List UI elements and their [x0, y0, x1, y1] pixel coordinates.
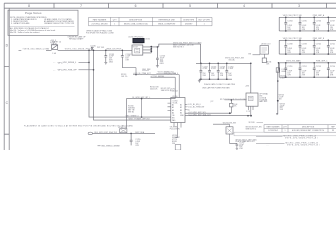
svg-text:PWR_GRP_C: PWR_GRP_C — [316, 61, 328, 63]
svg-text:C1754: C1754 — [330, 66, 335, 68]
leader label 2 — [256, 142, 285, 144]
capacitor C1743 — [104, 50, 107, 62]
leader label 1 — [256, 135, 283, 137]
svg-text:7: 7 — [80, 4, 82, 8]
BOM table bottom — [234, 125, 336, 136]
capacitor C1752 — [299, 63, 302, 77]
svg-text:5: 5 — [189, 4, 191, 8]
R1746 — [263, 54, 265, 58]
Q1743 bottom pins — [249, 106, 254, 116]
svg-text:IN OUT: IN OUT — [133, 46, 138, 48]
svg-text:0.1UF: 0.1UF — [211, 68, 216, 70]
ground C1746 — [156, 66, 159, 68]
W1740 notes block — [128, 106, 136, 114]
page notes box — [8, 10, 78, 35]
svg-text:BLK_GPIO_EXP_SDA_3V3: BLK_GPIO_EXP_SDA_3V3 — [95, 131, 117, 134]
capacitor C1754 — [327, 63, 330, 77]
svg-text:HOLDER, SINGLE SMT 1.20MM PITC: HOLDER, SINGLE SMT 1.20MM PITCH — [292, 130, 325, 132]
cap bank row 3 buses — [279, 63, 336, 77]
capacitor C1734 — [284, 17, 287, 31]
Q1743 side text — [259, 93, 268, 104]
ferrite FB1743 on rail — [277, 63, 280, 115]
capacitor C1738 — [284, 40, 287, 54]
wire from C1744 to right — [122, 67, 136, 69]
svg-text:GND_SENSE_0: GND_SENSE_0 — [126, 116, 139, 118]
svg-text:C1736: C1736 — [316, 21, 321, 23]
left zone ticks — [4, 67, 9, 135]
svg-text:GPIO_PWR_OFF: GPIO_PWR_OFF — [63, 70, 78, 72]
U1750 top pin wire — [126, 98, 179, 129]
svg-text:PART NUMBER: PART NUMBER — [267, 125, 281, 128]
svg-text:1.0UF: 1.0UF — [228, 68, 233, 70]
svg-text:«LCD_BL_PWM_EXT: «LCD_BL_PWM_EXT — [133, 73, 152, 75]
cap bank row 2 buses — [279, 40, 336, 54]
ground mid cluster — [198, 79, 201, 83]
svg-text:0.1UF: 0.1UF — [220, 68, 225, 70]
sheet border frame — [4, 3, 336, 150]
svg-text:VSYS_5V0_VBUS_PROT_A 〉: VSYS_5V0_VBUS_PROT_A 〉 — [285, 136, 319, 139]
rail VSYS down — [250, 63, 252, 93]
svg-text:SEE NOTE 4: SEE NOTE 4 — [246, 129, 257, 131]
svg-text:DIGIKEY: DIGIKEY — [185, 23, 193, 25]
capacitor C1736 — [313, 17, 316, 31]
svg-text:C1741: C1741 — [330, 44, 335, 46]
svg-text:0805: 0805 — [109, 61, 113, 63]
wire rail V1 down — [89, 50, 124, 117]
svg-text:10K 1%: 10K 1% — [121, 76, 128, 78]
capacitor C1740 — [313, 40, 316, 54]
capacitor C1737 — [327, 17, 330, 31]
capacitor C1751 — [284, 63, 287, 77]
U1746 box — [260, 46, 269, 55]
U1750 right bus wires — [185, 113, 251, 116]
wire stub far left — [19, 49, 22, 51]
U1740 dark pinout block — [133, 38, 145, 43]
svg-text:+3V3: +3V3 — [245, 85, 249, 87]
svg-text:VBUS_CONN/PORT: VBUS_CONN/PORT — [158, 23, 176, 25]
svg-text:0.1UF: 0.1UF — [280, 77, 285, 79]
svg-text:4.7UF: 4.7UF — [203, 68, 208, 70]
wire down from switch to bulk cap — [230, 134, 237, 143]
U1750 part text block — [172, 135, 181, 145]
mid bottom bus — [199, 78, 232, 80]
svg-text:PLACEMENT IN CASE GOES TO BULL: PLACEMENT IN CASE GOES TO BULLS AT EITHE… — [24, 124, 134, 127]
rail end arrow — [276, 113, 278, 115]
capacitor C1747 — [200, 63, 203, 79]
U1750 left pin wires — [124, 117, 171, 120]
wire rail V2 down — [94, 50, 128, 120]
zone numbers — [6, 4, 300, 105]
svg-text:1 2 3: 1 2 3 — [246, 111, 250, 113]
svg-text:1-2199230-2: 1-2199230-2 — [268, 130, 278, 132]
capacitor C1753 — [313, 63, 316, 77]
svg-text:1: 1 — [114, 23, 115, 25]
wire CT741 into U1750 — [151, 77, 176, 97]
svg-text:REFERENCE USE: REFERENCE USE — [159, 19, 176, 21]
svg-text:VSYS_3V3_MAIN: VSYS_3V3_MAIN — [286, 60, 301, 63]
capacitor C1746 — [156, 47, 159, 66]
Q1743 left stub — [225, 99, 247, 101]
resistor R1752 — [230, 100, 232, 113]
svg-text:U1746 LDO: U1746 LDO — [261, 43, 271, 45]
svg-text:«LCD_BL_PWM_INT: «LCD_BL_PWM_INT — [187, 107, 205, 109]
svg-text:REV A02 DRAFT: REV A02 DRAFT — [69, 37, 84, 40]
wire VBUS input — [46, 49, 132, 51]
wire LCD_BL_PWM into U1750 — [133, 75, 179, 98]
svg-text:C4_GPIO_EXP_INT_L: C4_GPIO_EXP_INT_L — [132, 97, 150, 99]
U1740 right pins — [143, 47, 159, 53]
U1740 symbol box — [132, 45, 143, 55]
svg-text:PKT 5V0: PKT 5V0 — [97, 47, 104, 49]
svg-text:DESCRIPTION: DESCRIPTION — [302, 126, 315, 128]
svg-text:〈VSYS_5V0_VBUS_CONN: 〈VSYS_5V0_VBUS_CONN — [22, 48, 50, 51]
svg-text:Page Notes: Page Notes — [25, 11, 42, 15]
svg-text:6: 6 — [135, 4, 137, 8]
svg-text:HALL EFF: HALL EFF — [259, 100, 267, 103]
U1750 right pins with labels — [185, 104, 187, 109]
wire SDA — [93, 132, 156, 134]
svg-text:A4: A4 — [172, 111, 174, 114]
capacitor C1749 — [217, 63, 220, 79]
capacitor C1750 — [225, 63, 228, 79]
svg-text:VSYS_5V0_VBUS_PROT_B 〉: VSYS_5V0_VBUS_PROT_B 〉 — [287, 144, 321, 147]
Q1743 box — [246, 93, 258, 106]
svg-text:C1740: C1740 — [316, 44, 321, 46]
svg-text:BUY QTY/PR: BUY QTY/PR — [198, 19, 210, 21]
svg-text:U1740: U1740 — [145, 38, 150, 40]
svg-text:MICRO_USB_CONN 5V 2A: MICRO_USB_CONN 5V 2A — [124, 22, 148, 25]
W1743 switch box — [226, 127, 233, 134]
svg-text:1: 1 — [285, 130, 286, 132]
ground C1743 — [104, 62, 107, 64]
U1750 bottom pins — [174, 123, 181, 138]
svg-text:W1743_EN_SW: W1743_EN_SW — [223, 123, 236, 125]
svg-text:PART NUMBER: PART NUMBER — [93, 18, 107, 21]
svg-text:POLYFUSE TVS PLACED CLOSE: POLYFUSE TVS PLACED CLOSE — [86, 32, 114, 35]
svg-text:TXB0104: TXB0104 — [170, 91, 178, 93]
svg-text:2171790-1 MOLEX: 2171790-1 MOLEX — [91, 23, 108, 25]
top zone ticks — [54, 3, 327, 8]
svg-text:NEXT_POWER_OFF_INT: NEXT_POWER_OFF_INT — [129, 119, 151, 121]
svg-text:A1: A1 — [172, 104, 174, 107]
svg-text:A3: A3 — [172, 109, 174, 112]
wire to W1743 — [213, 124, 230, 127]
wire from U1746 left — [253, 54, 261, 56]
svg-text:4: 4 — [243, 4, 245, 8]
Y1740 small box bottom — [175, 145, 181, 150]
svg-text:«CT741_SENSE: «CT741_SENSE — [151, 76, 165, 78]
capacitor C1741 — [327, 40, 330, 54]
fuse F1740 — [52, 45, 58, 50]
svg-text:GND_SHIELD_SENSE: GND_SHIELD_SENSE — [101, 146, 120, 148]
rail junction + cap text W1743a — [277, 80, 279, 82]
svg-text:C1738: C1738 — [287, 44, 292, 46]
svg-text:0805: 0805 — [160, 63, 164, 65]
svg-text:R1752 PULLUP TO LCD RAIL: R1752 PULLUP TO LCD RAIL — [220, 98, 247, 101]
svg-text:SEE NOTE 3: SEE NOTE 3 — [173, 47, 184, 49]
svg-text:VBUS_5V0_PROT: VBUS_5V0_PROT — [106, 49, 122, 51]
svg-text:C1737: C1737 — [330, 21, 335, 23]
svg-text:PULLDOWN: PULLDOWN — [170, 129, 180, 131]
cap C1755 below junction — [130, 133, 133, 145]
capacitor C1744 — [121, 50, 124, 67]
svg-text:C1751: C1751 — [287, 66, 292, 68]
svg-text:XF1740: XF1740 — [249, 122, 255, 124]
capacitor W1743 bulk — [236, 143, 239, 148]
svg-text:C1752: C1752 — [302, 66, 307, 68]
svg-text:Min R8 : Suffix of value for a: Min R8 : Suffix of value for ambient — [10, 31, 40, 34]
svg-text:A2: A2 — [172, 106, 174, 109]
svg-text:〈EXP_SDA: 〈EXP_SDA — [134, 131, 145, 134]
capacitor C1739 — [299, 40, 302, 54]
U1750 left stub pins — [168, 103, 171, 110]
svg-text:8: 8 — [28, 4, 30, 8]
svg-text:5V0 2A: 5V0 2A — [229, 58, 236, 61]
svg-text:3. CAPACITORS ARE: 3. CAPACITORS ARE — [11, 22, 30, 25]
svg-text:«C4_GPIO_EXP_SDA_3V3: «C4_GPIO_EXP_SDA_3V3 — [188, 113, 210, 116]
BOM table top — [89, 17, 213, 25]
svg-text:3: 3 — [298, 4, 300, 8]
svg-text:C1739: C1739 — [302, 44, 307, 46]
capacitor C1735 — [299, 17, 302, 31]
mid top bus — [196, 62, 251, 64]
capacitor C1748 — [208, 63, 211, 79]
svg-text:ONE CAP PER POWER PIN PAIR: ONE CAP PER POWER PIN PAIR — [202, 87, 230, 90]
svg-text:( 1 P: ( 1 P — [210, 101, 213, 103]
svg-text:1: 1 — [204, 23, 205, 25]
svg-text:GPIO_SENSE_0: GPIO_SENSE_0 — [63, 62, 77, 64]
cap bank row 1 buses — [279, 17, 336, 31]
svg-text:PLACE CAPS CLOSE TO LOAD PINS: PLACE CAPS CLOSE TO LOAD PINS — [204, 83, 236, 86]
svg-text:C1734: C1734 — [287, 21, 292, 23]
svg-text:C1735: C1735 — [302, 21, 307, 23]
svg-text:SEE N2: SEE N2 — [128, 112, 134, 114]
vertical INT route — [141, 99, 143, 118]
svg-text:0402 10K: 0402 10K — [150, 88, 158, 90]
svg-text:DESCRIPTION: DESCRIPTION — [129, 19, 143, 21]
net port oval — [88, 132, 92, 135]
gnd label bottom left — [98, 145, 101, 147]
svg-text:DIGIKEY/PN: DIGIKEY/PN — [183, 19, 194, 21]
svg-text:CERAMIC DIELECTRIC TYPE X7R: CERAMIC DIELECTRIC TYPE X7R — [44, 22, 75, 25]
svg-text:C1753: C1753 — [316, 66, 321, 68]
wire regulator output — [159, 44, 201, 63]
